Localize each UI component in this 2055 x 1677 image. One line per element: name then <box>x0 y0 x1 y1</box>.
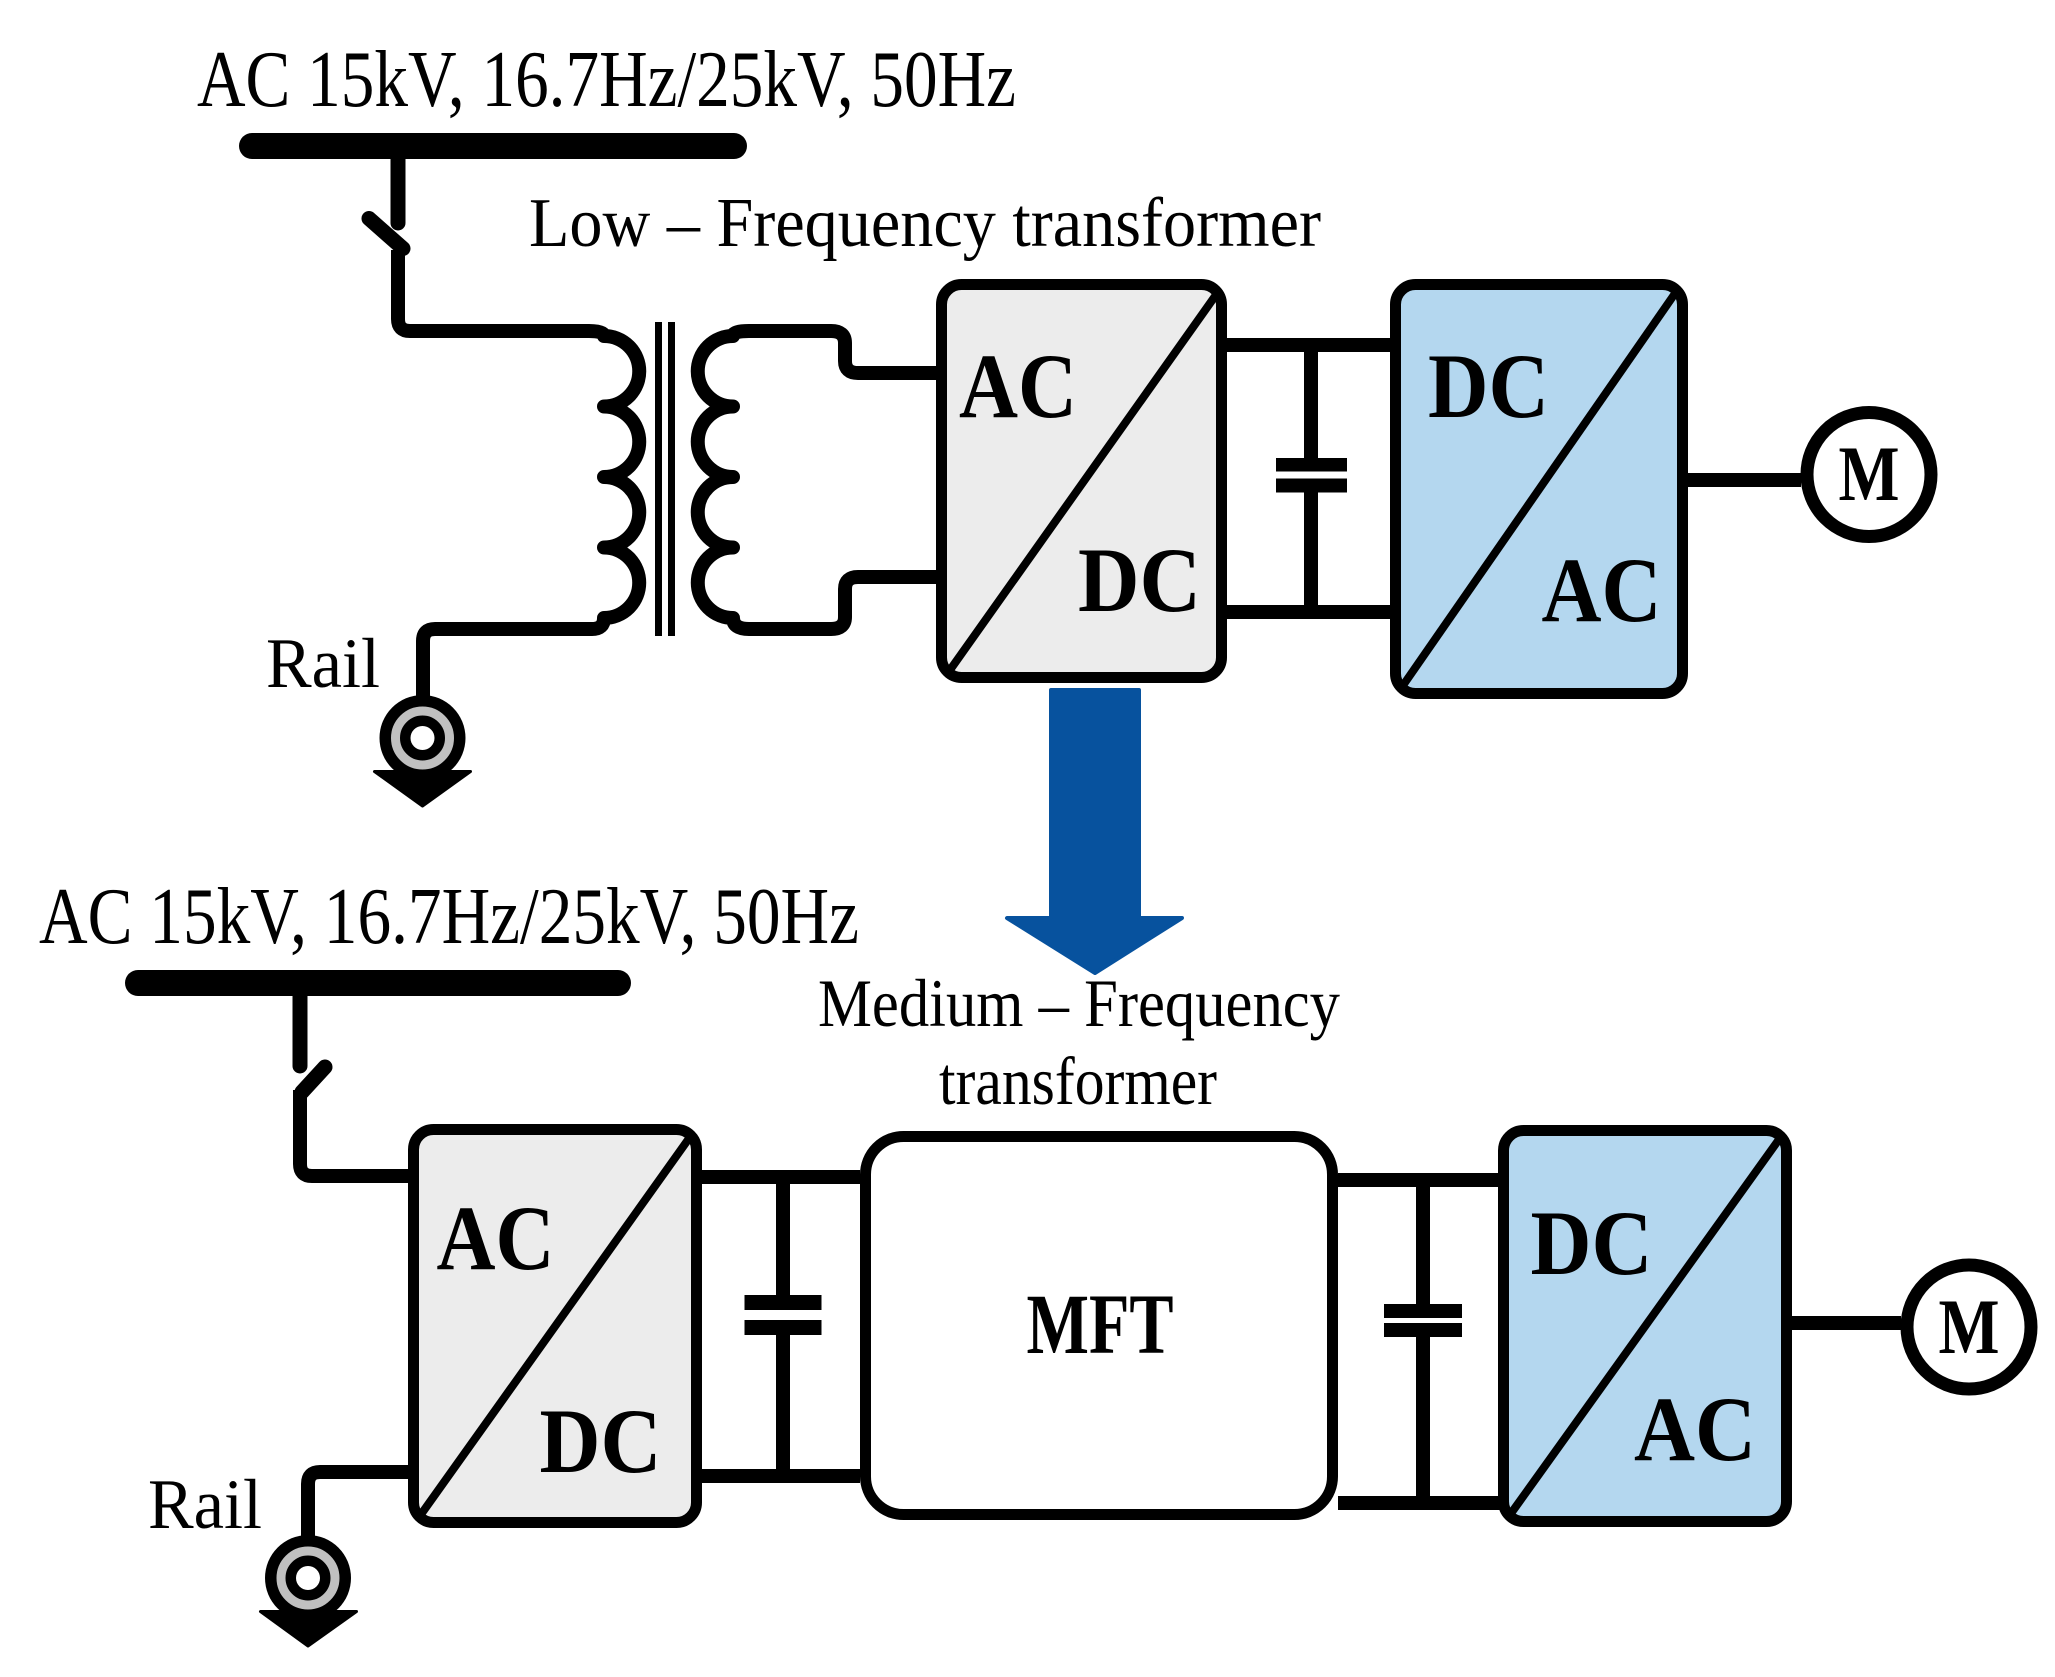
svg-text:DC: DC <box>1078 529 1201 631</box>
svg-text:Rail: Rail <box>266 625 380 703</box>
svg-text:DC: DC <box>1531 1192 1653 1294</box>
svg-text:MFT: MFT <box>1027 1276 1174 1372</box>
svg-text:Low – Frequency transformer: Low – Frequency transformer <box>529 185 1321 262</box>
svg-text:Medium – Frequency: Medium – Frequency <box>818 965 1340 1041</box>
svg-text:Rail: Rail <box>148 1466 262 1544</box>
svg-text:AC 15kV, 16.7Hz/25kV, 50Hz: AC 15kV, 16.7Hz/25kV, 50Hz <box>197 36 1016 124</box>
svg-text:AC: AC <box>1542 539 1662 641</box>
svg-text:AC: AC <box>959 335 1077 437</box>
svg-text:M: M <box>1839 430 1900 517</box>
svg-text:AC 15kV, 16.7Hz/25kV, 50Hz: AC 15kV, 16.7Hz/25kV, 50Hz <box>39 873 859 961</box>
svg-text:AC: AC <box>437 1187 555 1289</box>
svg-text:M: M <box>1939 1283 2000 1370</box>
svg-text:AC: AC <box>1634 1378 1756 1480</box>
svg-text:DC: DC <box>1428 335 1549 437</box>
svg-text:DC: DC <box>540 1390 662 1492</box>
svg-text:transformer: transformer <box>939 1043 1217 1119</box>
